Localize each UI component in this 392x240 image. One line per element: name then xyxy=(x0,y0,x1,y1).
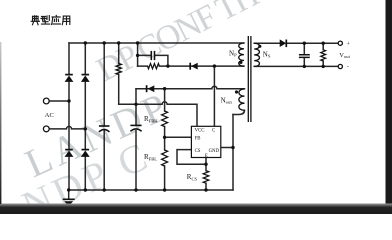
svg-text:-: - xyxy=(347,65,349,71)
resistor RFBH xyxy=(162,111,168,127)
glyph 应 xyxy=(52,15,61,24)
diode A clamp (cathode left) xyxy=(190,63,198,70)
winding Np xyxy=(239,43,244,66)
transformer core xyxy=(248,36,251,122)
wire: bulk cap column xyxy=(103,43,105,190)
wire: output cap stubs xyxy=(303,43,305,66)
wire: bridge column 2 xyxy=(84,43,86,190)
wire: FB tap xyxy=(165,136,192,138)
wire: aux rectifier line with hop over C xyxy=(136,86,245,89)
AC terminal top xyxy=(43,98,49,104)
watermark xyxy=(15,0,264,228)
AC terminal bottom xyxy=(43,126,49,132)
wire: VCC cap branch xyxy=(135,89,137,190)
svg-text:NS: NS xyxy=(263,50,271,58)
scan border left xyxy=(0,42,1,204)
output terminal + xyxy=(338,41,342,45)
svg-text:FB: FB xyxy=(195,137,201,142)
wire: snubber vertical xyxy=(137,43,139,66)
svg-text:NP: NP xyxy=(229,49,237,57)
wire: VCC line with hop over FB divider xyxy=(119,102,197,127)
wire: AC neutral with hop over column1 xyxy=(49,126,85,129)
wire: startup resistor column xyxy=(118,43,120,104)
wire: top DC+ rail xyxy=(69,42,244,44)
svg-text:Vout: Vout xyxy=(339,52,350,59)
scan border right xyxy=(386,0,392,214)
diode D2 bridge upper-right xyxy=(81,75,90,82)
winding Ns xyxy=(254,43,259,66)
output terminal - xyxy=(338,64,342,68)
capacitor output xyxy=(299,55,310,58)
svg-text:Naux: Naux xyxy=(221,96,233,104)
svg-text:AC: AC xyxy=(45,112,54,119)
capacitor VCC (polarized) xyxy=(130,125,141,131)
winding Naux xyxy=(239,89,245,110)
wire: bridge column 1 xyxy=(68,43,70,190)
svg-text:RFBL: RFBL xyxy=(144,153,157,162)
resistor Rcs xyxy=(203,171,209,184)
resistor load xyxy=(321,50,326,61)
svg-text:+: + xyxy=(347,42,351,48)
glyph 型 xyxy=(41,16,50,24)
wire: Naux bottom lead xyxy=(233,110,245,114)
diode D3 bridge lower-left xyxy=(65,150,74,157)
svg-text:C: C xyxy=(212,128,215,133)
wire: drain/C vertical xyxy=(213,66,215,126)
capacitor snubber xyxy=(151,51,154,60)
node dot Np polarity xyxy=(239,61,242,64)
svg-text:GND: GND xyxy=(209,149,220,154)
svg-text:VCC: VCC xyxy=(195,128,205,133)
resistor RFBL xyxy=(162,150,168,166)
wire: CS loop xyxy=(177,150,206,165)
op IC U1 box xyxy=(191,126,220,157)
wire: load resistor stubs xyxy=(322,43,324,66)
wire: AC line input xyxy=(49,100,69,102)
resistor snubber xyxy=(148,64,160,69)
wire: secondary bottom rail xyxy=(254,65,338,67)
node dot Naux polarity xyxy=(235,90,238,93)
node dot Ns polarity xyxy=(258,45,261,48)
wire: E pin to Rcs xyxy=(205,158,207,191)
svg-text:RCS: RCS xyxy=(187,173,198,182)
wire: snubber cap branch xyxy=(138,55,168,66)
diode D4 bridge lower-right xyxy=(81,150,90,157)
svg-text:E: E xyxy=(205,154,208,159)
wire: aux return vertical xyxy=(232,115,234,191)
wire: ground stub xyxy=(68,190,70,199)
title 典型应用 xyxy=(31,15,70,24)
diode D1 bridge upper-left xyxy=(65,75,74,82)
wire: FB divider vertical xyxy=(164,89,166,190)
resistor R startup xyxy=(116,64,121,75)
wire: GND pin to aux return xyxy=(221,147,233,149)
ground xyxy=(63,199,75,206)
diode B aux rectifier (cathode left) xyxy=(147,85,155,92)
wire: bottom ground rail xyxy=(69,189,233,191)
glyph 用 xyxy=(62,16,70,24)
glyph 典 xyxy=(31,16,39,25)
svg-text:CS: CS xyxy=(195,149,201,154)
wire: secondary top rail xyxy=(254,42,338,44)
wire: clamp line to Np bottom xyxy=(138,65,244,67)
scan border bottom xyxy=(0,204,392,215)
capacitor bulk (polarized) xyxy=(99,126,110,132)
diode D5 output (cathode right) xyxy=(280,40,286,48)
